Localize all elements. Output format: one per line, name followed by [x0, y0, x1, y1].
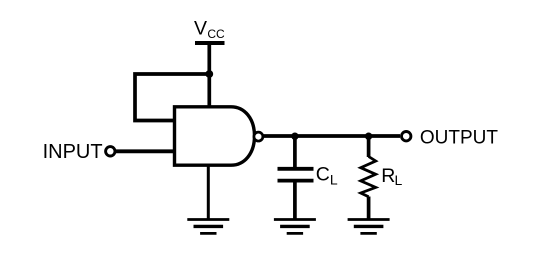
- NAND gate U1 output inversion bubble: [254, 132, 263, 141]
- ground symbol (RL): [348, 220, 390, 234]
- svg-text:OUTPUT: OUTPUT: [420, 128, 499, 149]
- OUTPUT terminal (open circle): [402, 132, 411, 141]
- svg-text:INPUT: INPUT: [43, 141, 103, 163]
- node: junction dot at capacitor branch: [291, 133, 298, 140]
- net label VCC: [194, 17, 225, 41]
- wire VCC bar to gate top power pin: [207, 43, 211, 107]
- value label RL: [381, 165, 402, 188]
- wire junction to capacitor top plate: [293, 136, 297, 167]
- ground symbol (CL): [274, 220, 316, 234]
- wire output net: bubble to OUTPUT terminal: [263, 134, 400, 138]
- capacitor CL plates: [278, 169, 314, 181]
- ground symbol (gate): [187, 220, 229, 234]
- resistor RL zigzag: [361, 157, 376, 197]
- node: junction dot at resistor branch: [365, 133, 372, 140]
- power rail VCC bar: [195, 41, 225, 45]
- value label CL: [316, 163, 338, 187]
- svg-text:CC: CC: [207, 27, 225, 41]
- svg-text:V: V: [194, 17, 207, 39]
- node: junction dot on VCC wire: [205, 70, 213, 78]
- wire gate ground pin: [207, 165, 210, 219]
- svg-text:L: L: [330, 172, 338, 188]
- svg-text:C: C: [316, 163, 330, 185]
- svg-text:R: R: [381, 165, 395, 187]
- wire resistor bottom to ground: [367, 197, 371, 220]
- wire junction to resistor top: [367, 136, 371, 157]
- INPUT terminal (open circle): [106, 147, 115, 156]
- wire feedback loop tying top input to VCC node: [135, 74, 209, 121]
- wire INPUT terminal to gate bottom input: [116, 149, 175, 153]
- NAND gate U1 body: [175, 107, 255, 165]
- wire capacitor bottom plate to ground: [293, 183, 297, 220]
- svg-text:L: L: [395, 172, 403, 188]
